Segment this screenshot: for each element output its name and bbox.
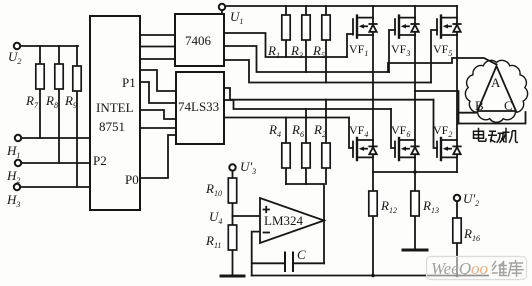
wire bottom rail — [252, 275, 488, 277]
svg-text:R12: R12 — [380, 198, 397, 215]
svg-text:A: A — [491, 75, 501, 90]
svg-text:U1: U1 — [230, 9, 243, 26]
svg-text:R6: R6 — [291, 122, 304, 139]
wire gate feed VF3 — [389, 30, 395, 72]
wire R7 leads — [39, 46, 41, 138]
junction dot bottom rail R12 — [371, 274, 375, 278]
wire op-amp plus input — [233, 215, 261, 217]
svg-text:VF2: VF2 — [433, 123, 452, 139]
wire VF4 source drop — [372, 157, 374, 190]
svg-text:R10: R10 — [205, 181, 222, 198]
svg-text:P0: P0 — [125, 172, 139, 187]
label motor 电 — [474, 128, 487, 142]
wire R6 leads — [305, 109, 307, 184]
svg-text:H2: H2 — [6, 168, 20, 185]
wire VF5 drain drop — [456, 6, 458, 18]
svg-text:B: B — [475, 98, 484, 113]
IC U1 INTEL 8751 — [90, 16, 140, 210]
ground below R13 — [403, 249, 427, 252]
svg-text:R1: R1 — [267, 43, 280, 60]
wire 8751 to 7406 input3 — [140, 58, 175, 60]
wire R10 to R11 node U4 — [232, 202, 234, 225]
svg-text:R13: R13 — [422, 198, 439, 215]
resistor R1 — [282, 15, 290, 40]
wire gate feed VF5 — [431, 30, 437, 83]
wire gate line VF3 from 7406 — [224, 46, 389, 72]
transistor VF6 — [395, 138, 419, 160]
terminal H2 — [15, 160, 21, 166]
resistor R16 — [453, 218, 461, 243]
resistor R11 — [228, 225, 236, 250]
wire R8 leads — [58, 46, 60, 163]
resistor R6 — [302, 143, 310, 168]
svg-text:R11: R11 — [205, 233, 221, 250]
motor winding triangle — [478, 66, 517, 111]
svg-text:H3: H3 — [6, 192, 20, 209]
wire R13 lower lead — [414, 216, 416, 248]
svg-text:R4: R4 — [268, 122, 281, 139]
label motor 动 — [488, 131, 505, 143]
wire VF1 drain drop — [372, 6, 374, 18]
wire P1 to 74LS33 input1 — [140, 70, 176, 91]
wire U1 top rail — [222, 6, 457, 14]
wire P1 to 74LS33 input3 — [140, 110, 176, 119]
wire U'3 to R10 — [232, 171, 234, 178]
wire R1 leads — [285, 6, 287, 57]
terminal U'3 — [229, 164, 235, 170]
resistor R5 — [322, 15, 330, 40]
transistor VF4 — [353, 138, 377, 160]
svg-text:P2: P2 — [93, 153, 107, 168]
wire R9 leads — [76, 46, 78, 187]
ground below R11 — [221, 275, 244, 278]
op-amp minus sign — [264, 232, 270, 234]
motor cloud outline — [465, 60, 527, 122]
svg-text:R16: R16 — [463, 226, 480, 243]
svg-text:VF1: VF1 — [349, 42, 368, 58]
resistor R8 — [55, 64, 63, 89]
svg-text:U'3: U'3 — [240, 159, 256, 176]
op-amp plus sign — [264, 207, 270, 212]
wire gate line VF2 from 74LS33 — [224, 88, 434, 100]
svg-text:VF3: VF3 — [391, 42, 410, 58]
watermark 维库 strokes — [493, 261, 524, 277]
wire VF6 source drop — [414, 157, 416, 190]
IC U2 7406 — [175, 14, 224, 66]
wire phase B to motor — [415, 91, 476, 124]
wire gate line VF6 from 74LS33 — [224, 100, 391, 109]
wire H3 line — [20, 186, 90, 188]
wire R11 to ground — [232, 249, 234, 275]
wire phase A to motor — [388, 58, 497, 72]
wire gate feed VF6 — [391, 109, 395, 148]
wire op-amp minus input feedback — [252, 232, 285, 276]
wire half-bridge leg A — [372, 35, 374, 140]
svg-text:P1: P1 — [122, 75, 136, 90]
terminal U1 — [219, 4, 225, 10]
wire H1 line — [21, 137, 90, 139]
transistor VF2 — [437, 138, 461, 160]
wire 8751 to 7406 input1 — [140, 34, 175, 36]
resistor R4 — [282, 143, 290, 168]
svg-text:7406: 7406 — [185, 33, 212, 48]
svg-text:R9: R9 — [64, 93, 77, 110]
wire H2 line — [21, 162, 90, 164]
resistor R2 — [322, 143, 330, 168]
wire P0 to 74LS33 input5 — [140, 135, 176, 178]
svg-text:VF5: VF5 — [433, 42, 452, 58]
wire gate line VF4 from 74LS33 — [224, 117, 349, 119]
watermark box — [427, 257, 527, 280]
svg-text:H1: H1 — [6, 143, 20, 160]
resistor R9 — [73, 66, 81, 91]
wire VF2 source drop — [456, 157, 458, 172]
svg-text:74LS33: 74LS33 — [178, 99, 219, 114]
svg-text:R3: R3 — [290, 43, 303, 60]
wire R3 leads — [305, 6, 307, 72]
wire gate line VF5 from 7406 — [224, 60, 431, 83]
transistor VF5 — [437, 16, 461, 38]
op-amp U4 LM324 — [260, 198, 324, 243]
svg-text:U'2: U'2 — [463, 191, 479, 208]
svg-text:R5: R5 — [312, 43, 325, 60]
IC U3 74LS33 — [176, 72, 224, 144]
terminal H3 — [14, 184, 20, 190]
resistor R13 — [411, 191, 419, 216]
wire half-bridge leg C — [456, 35, 458, 140]
resistor R12 — [369, 191, 377, 216]
svg-text:INTEL: INTEL — [96, 100, 134, 115]
terminal U'2 — [454, 195, 460, 201]
svg-text:VF4: VF4 — [349, 123, 368, 139]
svg-text:U2: U2 — [8, 49, 21, 66]
wire R5 leads — [325, 6, 327, 83]
wire R4 leads — [285, 118, 287, 185]
wire half-bridge leg B — [414, 35, 416, 140]
wire gate feed VF4 — [349, 118, 353, 149]
svg-text:C: C — [504, 98, 513, 113]
wire phase C to motor — [459, 112, 526, 124]
capacitor C — [285, 253, 293, 272]
svg-text:R7: R7 — [25, 93, 39, 110]
resistor R7 — [36, 64, 44, 89]
junction dot bottom rail R16 — [455, 274, 459, 278]
svg-text:LM324: LM324 — [264, 213, 304, 228]
wire gate line VF1 from 7406 — [224, 33, 347, 57]
resistor R3 — [302, 15, 310, 40]
svg-text:U4: U4 — [209, 209, 222, 226]
wire source rail — [373, 171, 457, 173]
resistor R10 — [228, 178, 236, 203]
terminal H1 — [15, 135, 21, 141]
svg-text:8751: 8751 — [99, 119, 125, 134]
wire VF3 drain drop — [414, 6, 416, 18]
label motor 机 — [503, 128, 519, 143]
svg-text:R2: R2 — [313, 122, 326, 139]
svg-text:R8: R8 — [45, 93, 58, 110]
junction dot source rail — [413, 170, 417, 174]
wire gate feed VF1 — [347, 34, 353, 57]
wire P1 to 74LS33 input4 — [140, 127, 176, 129]
transistor VF3 — [395, 16, 419, 38]
wire resistor common bus to op-amp output — [286, 184, 324, 263]
wire P1 to 74LS33 input2 — [140, 82, 176, 103]
terminal U2 — [14, 43, 20, 49]
wire U2 rail — [20, 45, 78, 47]
wire capacitor to output — [293, 262, 324, 264]
transistor VF1 — [353, 16, 377, 38]
wire R2 leads — [325, 100, 327, 184]
wire gate feed VF2 — [434, 100, 438, 148]
svg-text:C: C — [297, 247, 306, 262]
wire 8751 to 7406 input2 — [140, 46, 175, 48]
svg-text:VF6: VF6 — [391, 123, 410, 139]
svg-text:WeeQoo: WeeQoo — [431, 259, 488, 278]
wire R12 lower lead — [372, 216, 374, 276]
wire U'2 to R16 — [456, 202, 458, 276]
